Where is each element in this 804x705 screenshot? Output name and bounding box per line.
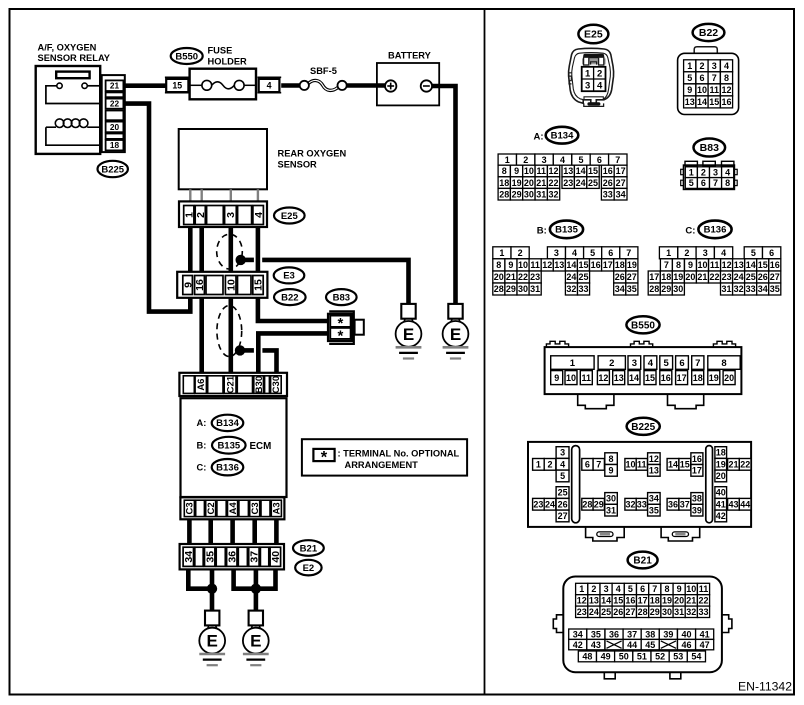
- svg-text:1: 1: [689, 167, 694, 177]
- svg-text:12: 12: [598, 373, 608, 383]
- svg-text:35: 35: [649, 505, 659, 515]
- svg-text:C30: C30: [271, 376, 282, 393]
- B225 divider: [572, 446, 580, 523]
- B550 row1 fuse cells: [551, 356, 594, 370]
- svg-text:4: 4: [560, 155, 565, 165]
- svg-text:3: 3: [632, 358, 637, 369]
- svg-text:17: 17: [649, 272, 659, 282]
- ECM pin C3b: [250, 500, 260, 516]
- pinout label B21: [628, 552, 658, 569]
- svg-text:SENSOR RELAY: SENSOR RELAY: [38, 53, 111, 63]
- svg-text:33: 33: [698, 607, 708, 617]
- wire E3-10 to ECM C21: [229, 298, 234, 373]
- connector E25 row: [179, 201, 267, 227]
- wire relay21 to fuse15: [125, 83, 166, 88]
- svg-text:16: 16: [661, 373, 671, 383]
- svg-text:ECM: ECM: [250, 441, 272, 452]
- svg-text:3: 3: [585, 81, 590, 92]
- svg-text:HOLDER: HOLDER: [208, 57, 248, 67]
- svg-text:42: 42: [716, 511, 726, 521]
- svg-text:28: 28: [494, 284, 504, 294]
- svg-text:3: 3: [703, 248, 708, 258]
- svg-text:38: 38: [645, 629, 655, 639]
- svg-text:15: 15: [758, 260, 768, 270]
- svg-text:4: 4: [597, 81, 603, 92]
- svg-text:7: 7: [626, 248, 631, 258]
- svg-text:13: 13: [614, 373, 624, 383]
- svg-text:1: 1: [687, 61, 692, 71]
- center divider line: [484, 9, 486, 695]
- svg-text:32: 32: [734, 284, 744, 294]
- wire 36+37+40 to ground: [234, 569, 276, 588]
- svg-text:22: 22: [740, 460, 750, 470]
- pinout label B22: [693, 24, 725, 41]
- svg-text:30: 30: [518, 284, 528, 294]
- svg-text:3: 3: [560, 448, 565, 458]
- svg-text:37: 37: [680, 499, 690, 509]
- svg-text:2: 2: [523, 155, 528, 165]
- connector label B83: [326, 289, 357, 305]
- svg-text:28: 28: [649, 284, 659, 294]
- svg-text:15: 15: [680, 460, 690, 470]
- svg-text:24: 24: [545, 499, 555, 509]
- svg-text:44: 44: [627, 640, 637, 650]
- pin 40: [270, 547, 281, 566]
- E25 blank: [207, 206, 224, 225]
- terminal 18: [106, 140, 124, 150]
- svg-text:1: 1: [666, 248, 671, 258]
- ground E (shield drain): [396, 304, 422, 359]
- fusible link SBF-5: [308, 80, 338, 90]
- svg-text:11: 11: [530, 260, 540, 270]
- svg-text:26: 26: [558, 499, 568, 509]
- ECM pin C3: [184, 500, 194, 516]
- svg-text:7: 7: [713, 178, 718, 188]
- svg-text:2: 2: [518, 248, 523, 258]
- svg-text:15: 15: [613, 596, 623, 606]
- svg-text:13: 13: [563, 166, 573, 176]
- svg-text:15: 15: [588, 166, 598, 176]
- svg-text:40: 40: [716, 488, 726, 498]
- svg-text:4: 4: [725, 167, 730, 177]
- svg-text:27: 27: [770, 272, 780, 282]
- E25 face pin grid: [582, 67, 606, 91]
- svg-text:23: 23: [563, 178, 573, 188]
- svg-text:34: 34: [183, 551, 195, 563]
- blank: [195, 547, 203, 566]
- svg-text:7: 7: [615, 155, 620, 165]
- svg-text:31: 31: [721, 284, 731, 294]
- svg-text:B550: B550: [631, 320, 655, 331]
- svg-text:18: 18: [661, 272, 671, 282]
- fuse symbol: [190, 84, 202, 86]
- svg-text:24: 24: [576, 178, 586, 188]
- pinout label B225: [627, 418, 660, 435]
- svg-text:11: 11: [637, 460, 647, 470]
- legend star box: [313, 449, 334, 461]
- svg-text:6: 6: [608, 248, 613, 258]
- svg-text:21: 21: [697, 272, 707, 282]
- svg-text:8: 8: [496, 260, 501, 270]
- svg-text:39: 39: [663, 629, 673, 639]
- svg-text:3: 3: [225, 212, 237, 218]
- pin 36: [227, 547, 237, 566]
- svg-text:20: 20: [494, 272, 504, 282]
- connector B225 terminal strip: [102, 75, 125, 152]
- svg-text:EN-11342: EN-11342: [738, 680, 792, 694]
- svg-text:B30: B30: [254, 376, 265, 393]
- svg-text:10: 10: [518, 260, 528, 270]
- sensor pigtail stubs: [189, 189, 191, 201]
- svg-text:13: 13: [589, 596, 599, 606]
- legend box: [302, 439, 467, 475]
- battery minus terminal: [421, 80, 432, 91]
- svg-text:15: 15: [253, 279, 265, 291]
- blank: [238, 547, 247, 566]
- relay contact left: [57, 83, 62, 88]
- svg-text:19: 19: [662, 596, 672, 606]
- ECM bottom connector row: [180, 497, 284, 519]
- svg-text:B225: B225: [101, 164, 124, 175]
- svg-text:30: 30: [673, 284, 683, 294]
- blank cell: [106, 92, 124, 97]
- svg-text:14: 14: [629, 373, 639, 383]
- pinout label E25: [578, 25, 608, 44]
- svg-text:33: 33: [578, 284, 588, 294]
- wire fuse4 to SBF-5: [281, 83, 301, 88]
- svg-text:E: E: [207, 632, 218, 651]
- svg-text:37: 37: [627, 629, 637, 639]
- svg-text:18: 18: [615, 260, 625, 270]
- wire ECM B30 to B83 terminal: [258, 333, 329, 372]
- svg-text:15: 15: [578, 260, 588, 270]
- svg-text:22: 22: [548, 178, 558, 188]
- svg-text:9: 9: [608, 466, 613, 476]
- B21 bottom pin grid: [569, 629, 587, 639]
- relay coil L1: [55, 119, 64, 128]
- junction 34/35: [207, 584, 217, 594]
- svg-text:B550: B550: [175, 51, 198, 62]
- svg-text:28: 28: [638, 607, 648, 617]
- svg-text:E: E: [450, 325, 461, 344]
- blank: [208, 376, 223, 394]
- svg-text:2: 2: [684, 248, 689, 258]
- wire E3-15 to B83 terminal: [258, 298, 330, 321]
- svg-text:53: 53: [673, 652, 683, 662]
- connector label E3: [274, 267, 305, 283]
- svg-text:24: 24: [589, 607, 599, 617]
- connector B83 (in-line): [329, 311, 354, 344]
- wire E25-2 to E3-16: [199, 227, 204, 272]
- blank: [265, 376, 270, 394]
- svg-text:35: 35: [591, 629, 601, 639]
- B83 star terminal 1: [330, 316, 350, 327]
- shield symbol (dashed) lower: [217, 306, 242, 357]
- svg-text:19: 19: [716, 459, 726, 469]
- svg-text:34: 34: [573, 629, 583, 639]
- svg-text:11: 11: [710, 260, 720, 270]
- blank: [183, 376, 194, 394]
- svg-text:16: 16: [194, 279, 206, 291]
- svg-text:14: 14: [601, 596, 611, 606]
- svg-text:36: 36: [668, 499, 678, 509]
- fuse terminal 15: [166, 79, 188, 92]
- svg-text:16: 16: [721, 97, 731, 107]
- svg-text:17: 17: [638, 596, 648, 606]
- svg-text:21: 21: [728, 460, 738, 470]
- svg-text:ARRANGEMENT: ARRANGEMENT: [345, 460, 419, 470]
- blank: [260, 547, 268, 566]
- svg-text:41: 41: [716, 499, 726, 509]
- svg-text:20: 20: [724, 373, 734, 383]
- svg-text:9: 9: [508, 260, 513, 270]
- terminal 22: [106, 99, 124, 109]
- svg-text:20: 20: [110, 122, 120, 132]
- svg-text:23: 23: [577, 607, 587, 617]
- shield symbol (dashed) upper: [217, 234, 243, 269]
- svg-text:26: 26: [615, 272, 625, 282]
- B83 pin grid: [685, 167, 697, 178]
- svg-text:27: 27: [616, 178, 626, 188]
- svg-text:37: 37: [249, 551, 261, 563]
- connector label B22: [274, 289, 306, 305]
- svg-text:5: 5: [590, 248, 595, 258]
- svg-text:E25: E25: [584, 29, 603, 41]
- svg-text:9: 9: [687, 85, 692, 95]
- svg-text:4: 4: [560, 459, 565, 469]
- svg-text:14: 14: [668, 460, 678, 470]
- svg-text:B21: B21: [300, 543, 318, 554]
- svg-text:27: 27: [627, 272, 637, 282]
- svg-text:18: 18: [499, 178, 509, 188]
- svg-text:32: 32: [566, 284, 576, 294]
- svg-text:18: 18: [110, 140, 120, 150]
- svg-text:18: 18: [650, 596, 660, 606]
- svg-text:35: 35: [204, 551, 216, 563]
- wire E3-16 to ECM A6: [199, 298, 204, 373]
- svg-text:16: 16: [625, 596, 635, 606]
- rear oxygen sensor box: [179, 129, 267, 189]
- svg-text:24: 24: [734, 272, 744, 282]
- svg-text:B22: B22: [699, 27, 718, 39]
- svg-text:2: 2: [609, 358, 614, 369]
- pin 37: [249, 547, 259, 566]
- svg-text:29: 29: [512, 189, 522, 199]
- svg-text:14: 14: [746, 260, 756, 270]
- svg-text:10: 10: [225, 279, 237, 291]
- svg-text:11: 11: [582, 373, 592, 383]
- E25 face bottom tab: [584, 103, 604, 106]
- svg-text:6: 6: [597, 155, 602, 165]
- svg-text:B225: B225: [631, 422, 655, 433]
- svg-text:5: 5: [687, 73, 692, 83]
- ECM connector A B134: [212, 415, 244, 431]
- svg-text:3: 3: [712, 61, 717, 71]
- svg-text:21: 21: [686, 596, 696, 606]
- E3 pin 16: [195, 276, 205, 295]
- svg-text:A4: A4: [228, 502, 239, 515]
- svg-text:42: 42: [573, 640, 583, 650]
- svg-text:B135: B135: [217, 441, 240, 452]
- pin 35: [205, 547, 215, 566]
- svg-text:E: E: [403, 325, 414, 344]
- svg-text:9: 9: [514, 166, 519, 176]
- svg-text:E25: E25: [281, 211, 299, 222]
- svg-text:12: 12: [722, 260, 732, 270]
- ECM pin B30: [254, 376, 264, 394]
- svg-text:10: 10: [697, 85, 707, 95]
- svg-text:E3: E3: [283, 271, 295, 282]
- svg-text:26: 26: [603, 178, 613, 188]
- svg-text:49: 49: [601, 652, 611, 662]
- svg-text:22: 22: [110, 99, 120, 109]
- svg-text:18: 18: [716, 448, 726, 458]
- svg-text:51: 51: [637, 652, 647, 662]
- svg-text:31: 31: [530, 284, 540, 294]
- svg-text:52: 52: [655, 652, 665, 662]
- svg-text:1: 1: [505, 155, 510, 165]
- svg-text:4: 4: [616, 584, 621, 594]
- svg-text:15: 15: [172, 81, 182, 91]
- svg-text:33: 33: [603, 189, 613, 199]
- connector E3 row: [177, 272, 267, 298]
- svg-text:A:: A:: [197, 418, 207, 428]
- svg-text:9: 9: [554, 373, 559, 383]
- B135 pin grid: [493, 247, 511, 259]
- svg-text:20: 20: [716, 471, 726, 481]
- svg-text:BATTERY: BATTERY: [388, 51, 432, 61]
- svg-text:1: 1: [499, 248, 504, 258]
- svg-text:17: 17: [677, 373, 687, 383]
- B83 side notches: [681, 169, 684, 174]
- svg-text:13: 13: [649, 466, 659, 476]
- svg-text:22: 22: [709, 272, 719, 282]
- svg-text:30: 30: [606, 494, 616, 504]
- terminal 20: [106, 122, 124, 133]
- svg-text:10: 10: [697, 260, 707, 270]
- svg-text:19: 19: [709, 373, 719, 383]
- ground E (sensor ground 2): [243, 611, 269, 666]
- svg-text:16: 16: [770, 260, 780, 270]
- svg-text:B:: B:: [537, 226, 547, 237]
- svg-text:8: 8: [721, 358, 726, 369]
- svg-text:30: 30: [662, 607, 672, 617]
- svg-text:25: 25: [578, 272, 588, 282]
- blank: [196, 500, 205, 516]
- wire 34+35 to ground: [188, 569, 212, 588]
- svg-text:26: 26: [613, 607, 623, 617]
- svg-text:27: 27: [625, 607, 635, 617]
- ECM pin A3: [271, 500, 281, 516]
- E25 pin 1: [184, 206, 194, 225]
- svg-text:11: 11: [709, 85, 719, 95]
- svg-text:13: 13: [734, 260, 744, 270]
- svg-text:6: 6: [701, 178, 706, 188]
- svg-text:4: 4: [721, 248, 726, 258]
- svg-text:39: 39: [692, 505, 702, 515]
- svg-text:43: 43: [591, 640, 601, 650]
- svg-text:30: 30: [524, 189, 534, 199]
- connector B21/E2 row: [180, 544, 284, 569]
- svg-text:17: 17: [692, 466, 702, 476]
- blank: [261, 500, 270, 516]
- svg-text:29: 29: [594, 499, 604, 509]
- svg-text:14: 14: [566, 260, 576, 270]
- svg-text:6: 6: [679, 358, 684, 369]
- svg-text:29: 29: [661, 284, 671, 294]
- svg-text:7: 7: [652, 584, 657, 594]
- svg-text:3: 3: [713, 167, 718, 177]
- E3 blank: [206, 276, 223, 295]
- svg-text:9: 9: [182, 282, 194, 288]
- ground E (sensor ground 1): [199, 611, 225, 666]
- svg-text:22: 22: [518, 272, 528, 282]
- svg-text:A6: A6: [196, 379, 207, 391]
- ECM top connector row: [179, 373, 287, 396]
- svg-text:SENSOR: SENSOR: [278, 160, 318, 170]
- svg-text:A3: A3: [272, 502, 283, 514]
- E3 pin 9: [183, 276, 193, 295]
- B225 divider 2: [706, 446, 713, 523]
- svg-text:4: 4: [267, 81, 272, 91]
- battery plus terminal: [385, 80, 396, 91]
- svg-text:1: 1: [579, 584, 584, 594]
- svg-text:5: 5: [560, 471, 565, 481]
- svg-text:22: 22: [698, 596, 708, 606]
- svg-text:11: 11: [536, 166, 546, 176]
- svg-text:8: 8: [664, 584, 669, 594]
- svg-text:13: 13: [554, 260, 564, 270]
- svg-text:5: 5: [689, 178, 694, 188]
- svg-text:6: 6: [640, 584, 645, 594]
- ECM connector C B136: [212, 459, 244, 475]
- wire SBF-5 to battery: [346, 83, 387, 88]
- E25 pin 4: [253, 206, 264, 225]
- svg-text:2: 2: [591, 584, 596, 594]
- ECM connector B B135: [212, 437, 246, 454]
- svg-text:17: 17: [603, 260, 613, 270]
- svg-text:19: 19: [512, 178, 522, 188]
- svg-text:E2: E2: [303, 563, 315, 574]
- svg-text:2: 2: [699, 61, 704, 71]
- svg-text:16: 16: [591, 260, 601, 270]
- svg-text:2: 2: [195, 212, 207, 218]
- svg-text:36: 36: [609, 629, 619, 639]
- B550 top latch tabs: [546, 341, 568, 347]
- svg-text:23: 23: [530, 272, 540, 282]
- svg-text:B134: B134: [216, 418, 239, 429]
- svg-text:43: 43: [728, 499, 738, 509]
- E25 blank: [238, 206, 252, 225]
- svg-text:5: 5: [628, 584, 633, 594]
- svg-text:5: 5: [578, 155, 583, 165]
- svg-text:12: 12: [577, 596, 587, 606]
- B83 star terminal 2: [330, 328, 350, 339]
- svg-text:1: 1: [585, 68, 591, 79]
- svg-text:16: 16: [603, 166, 613, 176]
- svg-text:B83: B83: [700, 142, 719, 154]
- svg-text:33: 33: [637, 499, 647, 509]
- svg-text:34: 34: [649, 494, 659, 504]
- svg-text:28: 28: [582, 499, 592, 509]
- svg-text:2: 2: [597, 68, 602, 79]
- svg-text:17: 17: [616, 166, 626, 176]
- junction 36/37/40: [251, 584, 261, 594]
- B83 right tab: [355, 320, 364, 335]
- svg-text:B134: B134: [551, 131, 574, 142]
- svg-text:SBF-5: SBF-5: [310, 66, 337, 76]
- svg-text:B22: B22: [281, 292, 298, 303]
